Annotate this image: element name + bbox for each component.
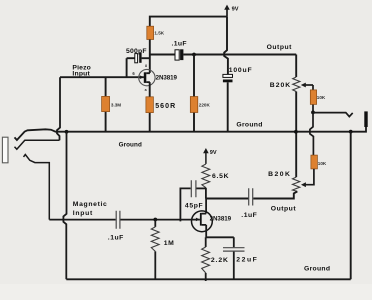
wire top rail 9V to 1.5K xyxy=(150,17,227,27)
svg-text:Output: Output xyxy=(271,205,297,212)
potentiometer VR1 B20K xyxy=(270,77,313,92)
resistor R3 560R xyxy=(146,97,175,113)
wire piezo input horizontal xyxy=(60,76,144,78)
wire drain column Q1 xyxy=(149,40,151,73)
svg-text:Output: Output xyxy=(267,44,293,51)
svg-text:45pF: 45pF xyxy=(185,203,203,210)
capacitor C4 100uF electrolytic xyxy=(223,67,252,82)
svg-text:1M: 1M xyxy=(164,240,174,247)
svg-text:8: 8 xyxy=(145,64,147,68)
node junction ground right border xyxy=(349,130,353,134)
wire right ground border xyxy=(350,132,352,280)
jack J1 sleeve contact and ground rail xyxy=(15,127,367,140)
wire 500pF to gate xyxy=(126,58,128,77)
potentiometer VR2 B20K xyxy=(268,171,300,191)
svg-text:100uF: 100uF xyxy=(229,67,252,74)
capacitor C8 22uF xyxy=(223,237,257,279)
resistor R9 2.2K xyxy=(202,237,228,281)
wire pot2 bottom jog to output wire xyxy=(253,191,297,198)
wire source Q2 xyxy=(205,225,207,237)
svg-text:.1uF: .1uF xyxy=(108,235,124,242)
resistor R7 6.5K zigzag xyxy=(202,164,229,188)
jack J2 output sleeve bar xyxy=(364,111,367,127)
wire source Q1 xyxy=(149,82,151,132)
svg-text:220K: 220K xyxy=(199,103,211,108)
wire magnetic input to cap xyxy=(49,219,115,221)
svg-text:2N3819: 2N3819 xyxy=(156,75,178,82)
wire 220K leads xyxy=(193,55,195,132)
svg-text:22uF: 22uF xyxy=(236,256,256,263)
svg-text:9V: 9V xyxy=(210,150,217,156)
svg-text:B20K: B20K xyxy=(268,171,290,178)
svg-text:500pF: 500pF xyxy=(126,48,147,55)
wire output to pot1 xyxy=(295,55,297,78)
wire pot1 bottom to ground to pot2 top xyxy=(295,92,297,178)
node junction pot ground xyxy=(294,130,298,134)
resistor R6 10K bottom xyxy=(311,155,327,169)
svg-text:Ground: Ground xyxy=(119,141,142,148)
capacitor C7 .1uF bottom xyxy=(241,188,256,219)
svg-text:560R: 560R xyxy=(155,103,175,110)
svg-text:B20K: B20K xyxy=(270,82,290,89)
wire mixer node down with hop over ground rail xyxy=(310,112,314,155)
svg-text:3.3M: 3.3M xyxy=(111,103,121,108)
label piezo input xyxy=(72,64,90,77)
wire 6.5K to drain node Q2 xyxy=(205,188,207,214)
svg-text:Magnetic: Magnetic xyxy=(73,201,107,208)
transistor Q2 2N3819 xyxy=(192,211,232,232)
svg-text:Ground: Ground xyxy=(304,266,330,273)
node junction 1M tap xyxy=(153,218,157,222)
wire 10K bottom to wiper2 xyxy=(306,169,314,185)
9V supply arrow bottom xyxy=(203,148,217,164)
jack J1 plug body xyxy=(2,137,8,163)
svg-text:9V: 9V xyxy=(232,6,239,12)
resistor R2 1.5K xyxy=(147,26,165,39)
svg-text:6.5K: 6.5K xyxy=(212,173,229,180)
resistor R4 220K xyxy=(190,97,210,113)
svg-text:.1uF: .1uF xyxy=(241,212,256,219)
wire 9V vertical with hop over output wire xyxy=(224,17,228,75)
label magnetic input xyxy=(73,201,107,217)
svg-text:Input: Input xyxy=(73,210,93,217)
wire piezo input vertical with hop over ground rail xyxy=(57,77,60,140)
jack J1 contact magnetic xyxy=(24,155,50,220)
resistor R1 3.3M xyxy=(102,77,122,132)
jack J1 tip contact piezo xyxy=(15,140,60,149)
wire drain node to .1uF xyxy=(206,198,248,200)
node junction mixer output xyxy=(311,111,315,115)
wire output top channel xyxy=(183,54,296,56)
svg-text:Ground: Ground xyxy=(236,121,262,128)
node junction jack sleeve ground xyxy=(65,130,69,134)
node junction 220K tap xyxy=(192,53,196,57)
wire gate Q2 xyxy=(121,219,200,221)
capacitor C6 45pF feedback xyxy=(180,180,206,221)
svg-text:10K: 10K xyxy=(317,95,326,100)
wire to output jack tip xyxy=(313,113,353,117)
svg-text:.1uF: .1uF xyxy=(172,41,187,48)
svg-text:10K: 10K xyxy=(318,161,327,166)
wire bottom ground rail xyxy=(66,278,350,280)
9V supply arrow top xyxy=(224,5,239,17)
svg-text:2N3819: 2N3819 xyxy=(210,216,232,223)
svg-text:1.5K: 1.5K xyxy=(154,31,164,36)
capacitor C2 .1uF top xyxy=(150,41,187,61)
transistor Q1 2N3819 xyxy=(132,64,177,92)
wire ground left vertical with hop over magnetic wire xyxy=(63,132,66,279)
capacitor C1 500pF xyxy=(126,48,150,63)
wire 100uF to ground rail xyxy=(227,82,229,132)
wire source node xyxy=(206,236,234,238)
resistor R5 10K top xyxy=(310,90,326,105)
capacitor C5 .1uF magnetic input xyxy=(108,211,124,242)
wire wiper1 to 10K xyxy=(312,85,314,112)
svg-text:2.2K: 2.2K xyxy=(211,257,228,264)
resistor R8 1M xyxy=(151,220,174,280)
